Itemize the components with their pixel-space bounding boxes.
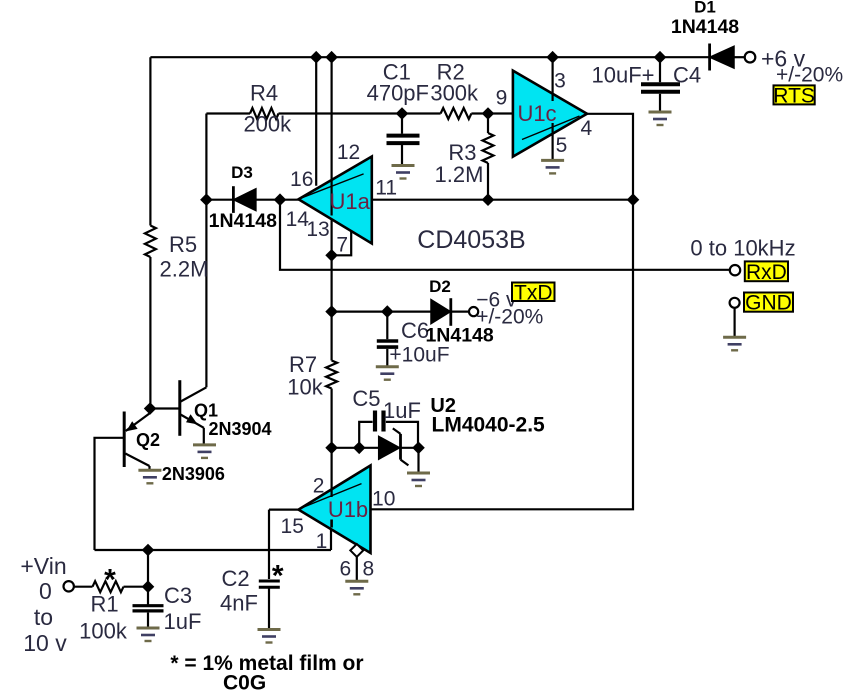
svg-text:2.2M: 2.2M [160,257,209,282]
svg-text:15: 15 [281,515,304,538]
svg-text:10k: 10k [287,375,323,400]
svg-text:2N3904: 2N3904 [208,419,271,439]
svg-text:C5: C5 [352,386,380,411]
svg-text:RxD: RxD [746,261,787,284]
svg-text:D1: D1 [694,0,716,17]
svg-text:+/-20%: +/-20% [776,63,843,86]
svg-text:Q1: Q1 [194,401,218,421]
svg-text:1N4148: 1N4148 [671,16,739,38]
svg-text:2: 2 [313,475,325,498]
svg-text:CD4053B: CD4053B [417,226,525,254]
svg-text:RTS: RTS [773,84,815,107]
svg-text:C4: C4 [673,63,701,88]
svg-text:0 to 10kHz: 0 to 10kHz [690,236,795,261]
svg-text:3: 3 [554,70,566,93]
svg-text:0: 0 [39,578,52,604]
svg-text:16: 16 [290,168,313,191]
svg-text:to: to [34,604,53,630]
svg-text:U1b: U1b [328,497,368,522]
svg-text:U1a: U1a [330,189,371,214]
svg-text:6: 6 [339,558,351,581]
svg-text:2N3906: 2N3906 [162,464,225,484]
svg-text:LM4040-2.5: LM4040-2.5 [432,414,546,437]
svg-text:9: 9 [496,87,508,110]
svg-text:C3: C3 [164,583,192,608]
svg-text:1N4148: 1N4148 [209,210,277,232]
svg-text:10: 10 [372,488,395,511]
svg-text:470pF: 470pF [367,80,429,105]
svg-text:R7: R7 [289,352,317,377]
svg-text:4: 4 [581,117,593,140]
svg-text:1.2M: 1.2M [435,162,484,187]
svg-text:1: 1 [316,530,328,553]
svg-text:200k: 200k [243,112,292,137]
svg-text:Q2: Q2 [136,430,160,450]
svg-text:+Vin: +Vin [20,553,66,579]
svg-text:300k: 300k [430,80,479,105]
svg-text:13: 13 [306,218,329,241]
svg-text:1uF: 1uF [383,398,421,423]
svg-text:11: 11 [375,177,397,200]
svg-text:R4: R4 [250,81,278,106]
svg-text:1N4148: 1N4148 [425,325,493,347]
svg-text:* = 1% metal film or: * = 1% metal film or [170,652,363,675]
svg-text:C0G: C0G [223,672,266,694]
svg-text:7: 7 [336,234,348,257]
svg-text:4nF: 4nF [220,591,258,616]
svg-text:*: * [104,564,116,597]
svg-text:*: * [272,560,284,593]
svg-text:U1c: U1c [517,101,556,126]
svg-text:R5: R5 [169,232,197,257]
svg-text:10 v: 10 v [23,630,67,656]
svg-text:12: 12 [337,141,360,164]
svg-text:8: 8 [363,557,375,580]
svg-text:10uF+: 10uF+ [592,63,655,88]
svg-text:C2: C2 [221,566,249,591]
svg-text:D2: D2 [429,277,451,296]
svg-text:100k: 100k [79,619,128,644]
svg-text:D3: D3 [231,163,253,182]
svg-text:1uF: 1uF [164,609,202,634]
svg-text:5: 5 [556,134,568,157]
svg-text:TxD: TxD [514,281,553,304]
svg-text:GND: GND [745,292,792,315]
svg-text:+10uF: +10uF [389,344,449,367]
